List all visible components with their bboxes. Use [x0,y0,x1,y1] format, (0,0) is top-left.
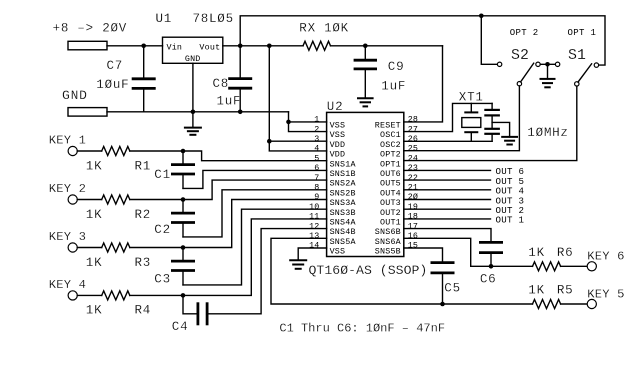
pin 5 SNS1A [314,153,356,169]
label U1 [156,12,173,26]
svg-text:2: 2 [314,124,319,134]
svg-text:SNS5B: SNS5B [375,247,401,257]
wire +8V input to U1 Vin [107,45,163,47]
svg-text:13: 13 [309,231,319,241]
svg-text:OUT1: OUT1 [380,218,401,228]
node junction U1 GND / ground rail [191,110,196,115]
label R1 [135,159,152,173]
svg-text:C5: C5 [444,282,461,296]
wire U2 OUT3 pin20 [404,199,491,201]
svg-text:OPT2: OPT2 [380,150,401,160]
svg-text:OUT4: OUT4 [380,188,401,198]
node junction C8 / ground rail [238,110,243,115]
svg-text:C2: C2 [154,223,171,237]
pin 2 VSS [314,124,345,140]
label C1 [154,168,171,182]
net label +8 -> 20V [53,22,127,36]
pin 12 SNS4B [309,221,356,237]
svg-text:1K: 1K [86,208,103,222]
node KEY 1 terminal [49,134,86,156]
connector +8V input pad [68,41,107,50]
node junction S2 branch [479,14,484,19]
svg-text:OSC2: OSC2 [380,140,401,150]
svg-text:C6: C6 [480,273,497,287]
svg-text:RESET: RESET [375,121,401,131]
label 1K (R2) [86,208,103,222]
pin 14 VSS [309,241,345,257]
wire R1 to U2 SNS1A pin5 [130,151,327,161]
label C5 [444,282,461,296]
label R3 [135,256,152,270]
ground symbol at pin14 [290,260,306,269]
svg-text:KEY 2: KEY 2 [49,182,86,196]
svg-text:1K: 1K [528,284,545,298]
svg-text:RX 1ØK: RX 1ØK [299,22,349,36]
switch S2 contact ground side [536,62,540,66]
node junction center ground [545,62,550,67]
label C4 [172,320,189,334]
capacitor C8 [230,46,251,112]
svg-text:Vout: Vout [199,42,220,52]
label S1 [568,48,586,64]
capacitor XT1 load cap bottom [485,115,498,141]
wire S2 pole to U2 OPT2 pin25 [404,86,520,151]
label 1K (R5) [528,284,545,298]
wire U2 SNS6A pin16 to C6 bottom [404,238,491,266]
svg-text:SNS2B: SNS2B [330,188,356,198]
ground symbol crystal caps [492,122,517,144]
svg-text:16: 16 [408,231,418,241]
net label OUT 2 [496,205,525,216]
capacitor C3 [172,248,193,285]
label OPT 1 [568,27,597,38]
note C1 thru C6 values [279,321,445,335]
switch S2 contact +5V side [497,62,501,66]
wire U2 SNS5B pin15 to C5 [404,248,443,263]
resistor R5 1K [533,300,588,309]
switch S1 contact ground side [555,62,559,66]
label C3 [154,273,171,287]
switch S2 arm [521,63,534,82]
pin 21 OUT4 [380,183,418,199]
svg-text:OSC1: OSC1 [380,130,401,140]
connector GND pad [68,108,107,117]
node junction VSS pin1 branch [286,120,291,125]
ground symbol below C9 [358,98,373,106]
node KEY 3 terminal [49,230,86,252]
wire ground rail to U2 VSS pin2 [289,112,327,132]
svg-text:C1 Thru C6: 1ØnF – 47nF: C1 Thru C6: 1ØnF – 47nF [279,321,445,335]
label 1K (R6) [528,246,545,260]
wire U2 OUT1 pin18 [404,218,491,220]
wire U2 OUT5 pin22 [404,179,491,181]
capacitor C9 [355,46,376,98]
net label OUT 3 [496,195,525,206]
svg-text:18: 18 [408,212,418,222]
svg-text:1: 1 [314,115,319,125]
pin 13 SNS5A [309,231,356,247]
svg-text:78LØ5: 78LØ5 [193,12,234,26]
svg-text:21: 21 [408,183,418,193]
svg-text:C9: C9 [388,60,405,74]
svg-text:R3: R3 [135,256,152,270]
node junction C6/R6 [489,264,494,269]
svg-text:14: 14 [309,241,319,251]
svg-text:1uF: 1uF [381,80,406,94]
wire S2 ground contact to center ground [540,63,555,65]
node KEY 6 terminal [587,250,624,271]
node junction C7/+8V [141,44,146,49]
capacitor C2 [172,200,193,237]
pin 8 SNS2B [314,183,355,199]
pin 10 SNS3B [309,202,356,218]
label C9 [388,60,405,74]
svg-text:R6: R6 [557,246,574,260]
svg-text:1ØuF: 1ØuF [96,78,129,92]
svg-text:KEY 1: KEY 1 [49,134,86,148]
wire U2 OSC2 pin26 rail [404,140,492,142]
svg-text:SNS3A: SNS3A [330,198,357,208]
pin 3 VDD [314,134,345,150]
capacitor C5 [432,263,453,304]
svg-text:SNS4A: SNS4A [330,218,357,228]
svg-text:5: 5 [314,153,319,163]
svg-text:1ØMHz: 1ØMHz [527,126,568,140]
wire +5V top rail [240,16,605,65]
wire U2 SNS6B pin17 to C6 [404,229,491,243]
pin 25 OPT2 [380,144,418,160]
svg-text:U1: U1 [156,12,173,26]
label U2 [327,100,344,114]
node junction KEY3/C3 [181,245,186,250]
svg-text:OUT5: OUT5 [380,179,401,189]
switch S1 contact +5V side [594,63,598,67]
net label OUT 5 [496,176,525,187]
pin 18 OUT1 [380,212,418,228]
capacitor C4 [183,295,207,324]
pin 7 SNS2A [314,173,356,189]
wire RX to RESET riser [331,45,443,47]
pin 17 SNS6B [375,221,418,237]
label C9 value 1uF [381,80,406,94]
ground symbol between S1 and S2 [541,64,555,87]
wire RESET riser to U2 pin28 [404,46,443,122]
svg-text:VDD: VDD [330,150,346,160]
switch S1 pole [575,82,579,86]
svg-text:7: 7 [314,173,319,183]
pin 16 SNS6A [375,231,418,247]
label 1K (R1) [86,159,103,173]
svg-text:15: 15 [408,241,418,251]
net label OUT 1 [496,215,525,226]
wire C1 to U2 SNS1B pin6 [183,170,327,188]
svg-text:SNS5A: SNS5A [330,237,357,247]
svg-text:GND: GND [62,88,88,103]
node KEY 4 terminal [49,278,86,300]
resistor R6 1K [491,262,587,271]
label 10MHz [527,126,568,140]
wire S2 +5V branch [481,16,497,65]
label R5 [557,284,574,298]
ground symbol below U1 [185,112,201,135]
svg-text:SNS1A: SNS1A [330,159,357,169]
wire S1 pole to U2 OPT1 pin24 [404,86,577,161]
wire to U2 VSS pin1 [289,121,327,123]
svg-text:1uF: 1uF [217,95,242,109]
wire U2 VSS pin14 to ground [298,248,326,260]
svg-text:+8 –> 2ØV: +8 –> 2ØV [53,22,127,36]
svg-text:XT1: XT1 [459,91,484,105]
node junction C5/R5 [440,302,445,307]
svg-text:OUT3: OUT3 [380,198,401,208]
resistor RX [303,41,331,50]
resistor R3 1K [77,243,130,252]
svg-text:1K: 1K [86,159,103,173]
wire ground rail [107,111,289,113]
svg-text:3: 3 [314,134,319,144]
svg-text:OUT2: OUT2 [380,208,401,218]
svg-text:OUT 1: OUT 1 [496,215,525,226]
label R4 [135,304,152,318]
svg-text:QT16Ø-AS (SSOP): QT16Ø-AS (SSOP) [309,263,428,278]
capacitor C7 [133,46,154,112]
svg-text:SNS6A: SNS6A [375,237,402,247]
svg-text:OPT 2: OPT 2 [510,27,539,38]
resistor R1 1K [77,147,130,156]
svg-text:OPT1: OPT1 [380,159,401,169]
svg-text:KEY 3: KEY 3 [49,230,86,244]
label R6 [557,246,574,260]
svg-text:17: 17 [408,221,418,231]
svg-text:2Ø: 2Ø [408,192,418,202]
label XT1 [459,91,484,105]
svg-text:27: 27 [408,124,418,134]
svg-text:Vin: Vin [167,42,183,52]
wire U2 OUT2 pin19 [404,208,491,210]
regulator U1 78L05 [163,37,223,64]
svg-text:4: 4 [314,144,319,154]
pin 20 OUT3 [380,192,418,208]
pin 9 SNS3A [314,192,356,208]
svg-text:U2: U2 [327,100,344,114]
svg-text:SNS2A: SNS2A [330,179,357,189]
svg-text:9: 9 [314,192,319,202]
svg-text:23: 23 [408,163,418,173]
svg-text:S2: S2 [511,48,529,64]
pin 15 SNS5B [375,241,418,257]
svg-text:R2: R2 [135,208,152,222]
wire U2 OUT6 pin23 [404,169,491,171]
label C6 [480,273,497,287]
resistor R2 1K [77,195,130,204]
wire U1 Vout +5V rail [223,45,303,47]
svg-text:OUT6: OUT6 [380,169,401,179]
svg-text:C7: C7 [107,59,124,73]
node KEY 2 terminal [49,182,86,204]
node junction C8/top rail [238,44,243,49]
svg-text:24: 24 [408,153,418,163]
wire C2 to U2 SNS2B pin8 [183,190,327,237]
svg-text:KEY 4: KEY 4 [49,278,86,292]
wire C4 to U2 SNS4B pin12 [207,229,327,314]
label 1K (R3) [86,256,103,270]
wire U2 OUT4 pin21 [404,189,491,191]
wire R2 to U2 SNS2A pin7 [130,180,327,199]
node junction VDD pin3 branch [267,139,272,144]
wire U2 OSC1 pin27 to crystal rail [404,103,492,131]
wire VDD riser to U2 pins 3 and 4 [269,46,326,151]
pin 27 OSC1 [380,124,418,140]
svg-text:OPT 1: OPT 1 [568,27,597,38]
wire to U2 VDD pin3 [269,140,326,142]
net label OUT 6 [496,166,525,177]
capacitor C6 [480,242,501,266]
wire U1 GND pin down to ground rail [192,63,194,112]
svg-text:1K: 1K [528,246,545,260]
svg-text:28: 28 [408,115,418,125]
wire C3 to U2 SNS3B pin10 [183,209,327,285]
pin 19 OUT2 [380,202,418,218]
svg-text:R5: R5 [557,284,574,298]
svg-text:SNS1B: SNS1B [330,169,356,179]
wire R3 to U2 SNS3A pin9 [130,200,327,248]
svg-text:22: 22 [408,173,418,183]
switch S2 pole [517,82,521,86]
pin 24 OPT1 [380,153,418,169]
svg-text:C8: C8 [213,77,230,91]
pin 1 VSS [314,115,345,131]
svg-text:C1: C1 [154,168,171,182]
svg-text:S1: S1 [568,48,586,64]
crystal XT1 [462,103,481,141]
resistor R4 1K [77,291,130,300]
switch S1 arm [578,64,592,82]
svg-text:SNS6B: SNS6B [375,227,401,237]
svg-text:12: 12 [309,221,319,231]
pin 28 RESET [375,115,418,131]
svg-text:C3: C3 [154,273,171,287]
net label OUT 4 [496,186,525,197]
wire U2 SNS5A pin13 to C5 bottom and R5 [271,238,533,304]
svg-text:6: 6 [314,163,319,173]
label R2 [135,208,152,222]
pin 22 OUT5 [380,173,418,189]
svg-text:VDD: VDD [330,140,346,150]
label C2 [154,223,171,237]
svg-text:1K: 1K [86,256,103,270]
node junction KEY2/C2 [181,197,186,202]
label OPT 2 [510,27,539,38]
label S2 [511,48,529,64]
node KEY 5 terminal [587,287,624,308]
svg-text:C4: C4 [172,320,189,334]
pin 11 SNS4A [309,212,356,228]
svg-text:10: 10 [309,202,319,212]
capacitor C1 [172,151,193,188]
svg-text:VSS: VSS [330,247,346,257]
svg-text:26: 26 [408,134,418,144]
node junction KEY1/C1 [181,149,186,154]
label 1K (R4) [86,304,103,318]
label RX 10K [299,22,349,36]
capacitor XT1 load cap top [485,103,498,115]
svg-text:11: 11 [309,212,319,222]
svg-text:SNS3B: SNS3B [330,208,356,218]
node junction C9 [363,44,368,49]
pin 6 SNS1B [314,163,355,179]
svg-text:R4: R4 [135,304,152,318]
svg-text:SNS4B: SNS4B [330,227,356,237]
svg-text:19: 19 [408,202,418,212]
label 78L05 [193,12,234,26]
svg-text:R1: R1 [135,159,152,173]
wire R4 to U2 SNS4A pin11 [130,219,327,296]
pin 23 OUT6 [380,163,418,179]
svg-text:VSS: VSS [330,121,346,131]
label C8 [213,77,230,91]
node junction KEY4/C4 [181,293,186,298]
net label GND [62,88,88,103]
op-amp U2 QT160-AS chip body [327,112,404,256]
label C7 value 10uF [96,78,129,92]
pin 26 OSC2 [380,134,418,150]
pin 4 VDD [314,144,345,160]
label C8 value 1uF [217,95,242,109]
svg-text:8: 8 [314,183,319,193]
label QT160-AS (SSOP) [309,263,428,278]
svg-text:1K: 1K [86,304,103,318]
svg-text:25: 25 [408,144,418,154]
svg-text:VSS: VSS [330,130,346,140]
label C7 [107,59,124,73]
node junction VDD riser [267,44,272,49]
